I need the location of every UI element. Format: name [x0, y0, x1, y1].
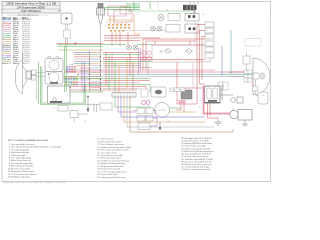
tachometer	[45, 72, 63, 85]
plug lead wire	[100, 28, 102, 50]
red loop wires	[197, 25, 205, 89]
legend rows	[3, 19, 32, 65]
tail feed wires	[228, 72, 253, 76]
warning lamp	[158, 15, 164, 21]
svg-text:Starter motor assembly: Starter motor assembly	[185, 145, 207, 148]
starter cable	[220, 85, 233, 100]
CDI cluster	[177, 88, 197, 104]
knot red wires	[104, 32, 160, 46]
ignition switch connector (black)	[183, 2, 198, 14]
main harness bundle	[64, 58, 250, 94]
svg-text:Emergency flasher switch: Emergency flasher switch	[11, 170, 34, 173]
rear connector block	[218, 82, 228, 90]
switch box D with contacts	[185, 24, 199, 33]
svg-text:L & R handlebar pilot lamps: L & R handlebar pilot lamps	[185, 166, 210, 169]
svg-text:Lighting switch/main switch (r: Lighting switch/main switch (right)	[101, 146, 132, 149]
connector right of ground bus	[100, 103, 112, 110]
svg-text:Tachometer light: Tachometer light	[11, 154, 26, 157]
svg-text:Carl Whitacre: Carl Whitacre	[21, 9, 42, 13]
svg-text:KEY TO WIRING DIAGRAM 1955 XS6: KEY TO WIRING DIAGRAM 1955 XS650	[8, 139, 49, 142]
purple feeders	[139, 48, 141, 75]
horn lead pair	[66, 24, 68, 30]
rear lights assembly box	[152, 45, 210, 63]
connector cluster pink	[142, 51, 151, 61]
svg-text:Turn signal flasher relay (6 V: Turn signal flasher relay (6 V)	[185, 153, 212, 156]
headlight wires	[36, 73, 45, 101]
harness comb connector	[112, 93, 136, 98]
svg-text:Turn signal switch: Turn signal switch	[101, 151, 117, 154]
blue riser	[84, 62, 86, 92]
comb drop blue	[121, 97, 205, 117]
battery heavy lead	[204, 86, 233, 114]
ground symbol battery	[214, 120, 222, 125]
svg-text:Neutral switch and oil: Neutral switch and oil	[101, 168, 121, 171]
comb drop brown	[130, 97, 233, 132]
svg-text:Battery (6N6-3B) and breather: Battery (6N6-3B) and breather	[185, 142, 213, 145]
subtitle bar	[8, 13, 48, 16]
relay wiring (purple)	[134, 111, 157, 127]
breaker box	[0, 0, 1, 1]
rear bulb L	[164, 49, 172, 54]
kick lead with arrow	[87, 96, 89, 112]
svg-text:Rectifier (silicon, 6 V 10 A): Rectifier (silicon, 6 V 10 A)	[185, 139, 209, 142]
indicator lamp L	[127, 45, 132, 50]
left switch cluster	[65, 64, 79, 88]
ignition unit box	[48, 86, 71, 104]
harness connector rail left	[89, 50, 91, 92]
purple dash stub	[157, 2, 159, 8]
softening overlay	[32, 14, 271, 137]
bulb socket connectors	[32, 70, 37, 75]
blue run	[221, 46, 223, 76]
svg-text:Meter & pilot lamp set: Meter & pilot lamp set	[11, 159, 31, 162]
tail light bulb	[253, 73, 265, 79]
flasher relay small	[64, 30, 71, 38]
battery down leads	[208, 103, 219, 120]
red drops to CDI	[177, 62, 193, 92]
ground bus (green loop)	[41, 66, 86, 104]
indicator lamp R	[133, 45, 138, 50]
parts list column 2	[97, 138, 131, 179]
relay box 3	[138, 123, 150, 130]
svg-text:Licence plate light: Licence plate light	[101, 173, 118, 176]
svg-text:Horn switch and dimmer switch: Horn switch and dimmer switch	[101, 149, 129, 152]
svg-text:Tail/brake light bulb (6V 17/5: Tail/brake light bulb (6V 17/5W)	[185, 158, 214, 161]
parts list column 3	[181, 137, 214, 171]
horn right	[243, 52, 250, 72]
red cross wire	[56, 43, 103, 44]
svg-text:Front brake light switch: Front brake light switch	[101, 140, 122, 143]
svg-text:Turn signal pilot light: Turn signal pilot light	[11, 148, 30, 151]
long green link	[128, 10, 196, 12]
red risers to rear light box	[143, 39, 205, 70]
svg-text:Horn and wire assembly: Horn and wire assembly	[101, 154, 124, 157]
svg-text:Frame ground (earth) strap: Frame ground (earth) strap	[101, 176, 126, 179]
dashed link	[194, 10, 196, 45]
svg-text:Main fuse (20 A) and spare fus: Main fuse (20 A) and spare fuse	[185, 150, 215, 153]
rectifier	[253, 86, 269, 104]
ground symbol starter	[242, 120, 248, 126]
flasher leads	[66, 38, 68, 46]
flasher connector circles	[142, 101, 151, 105]
coil pin rows (orange)	[108, 24, 130, 32]
weave horizontals	[103, 53, 140, 55]
speedometer	[45, 56, 63, 71]
weave verticals	[106, 52, 133, 90]
svg-text:Turn signal/running light (lef: Turn signal/running light (left) & handl…	[11, 146, 62, 149]
legend header	[3, 16, 33, 19]
right connector column	[205, 22, 214, 39]
green stub	[149, 2, 151, 9]
svg-text:Rear brake light switch: Rear brake light switch	[101, 157, 122, 160]
knot green wires	[58, 45, 152, 47]
pilot lamps pair	[151, 26, 163, 31]
main fuse holder	[231, 97, 243, 103]
svg-text:Rear turn signal lights (L & R: Rear turn signal lights (L & R)	[185, 160, 212, 163]
svg-text:Neutral switch (on crankcase): Neutral switch (on crankcase)	[185, 163, 212, 166]
top green stubs	[126, 2, 140, 10]
svg-text:L & R turn direction indicator: L & R turn direction indicator	[11, 173, 37, 176]
CDI feed	[176, 104, 184, 112]
svg-text:Speedo & meter light: Speedo & meter light	[11, 167, 31, 170]
svg-text:Frame / body ground (earth): Frame / body ground (earth)	[185, 168, 211, 171]
comb drop green	[115, 97, 151, 107]
connector below ignition unit	[58, 106, 68, 112]
svg-text:Handlebar stop lamp: Handlebar stop lamp	[11, 176, 31, 179]
switch box C	[166, 25, 180, 33]
svg-text:AC generator (alternator): AC generator (alternator)	[101, 165, 124, 168]
headlight bulb	[26, 71, 31, 79]
ignition coil block	[108, 6, 132, 22]
main switch	[151, 87, 166, 97]
relay box 2	[137, 116, 145, 122]
column connector boxes	[205, 41, 214, 58]
svg-text:Turn signal light (left front): Turn signal light (left front)	[11, 143, 35, 146]
pink top edge wire	[152, 45, 210, 47]
faint box right	[245, 39, 261, 47]
harness tail wires	[70, 90, 137, 92]
safety relay box	[170, 88, 185, 92]
coil wires (orange)	[108, 14, 140, 44]
comb drop purple	[118, 97, 136, 112]
svg-text:High beam pilot light: High beam pilot light	[11, 151, 30, 154]
svg-text:Headlight bulb (12 V 35/35 W): Headlight bulb (12 V 35/35 W)	[185, 137, 213, 140]
svg-text:Rush / Engine stop switch: Rush / Engine stop switch	[101, 143, 125, 146]
battery	[205, 86, 221, 103]
switch box A	[168, 14, 180, 21]
tail connector grid	[244, 70, 252, 82]
tail light shell	[253, 58, 270, 95]
rear bulb R	[185, 49, 193, 54]
border frame	[2, 2, 271, 182]
rail junction dots	[89, 56, 101, 89]
teal run	[230, 30, 232, 74]
spark plug taper	[98, 15, 103, 28]
drop from cluster	[147, 61, 149, 75]
neutral switch box	[70, 111, 88, 123]
connector ladder rungs	[90, 53, 100, 90]
component number labels	[53, 10, 265, 123]
switch stub wires	[80, 68, 89, 80]
spark plug cap	[98, 4, 103, 9]
title block	[2, 2, 60, 14]
relay box 1	[137, 108, 145, 114]
coil green feeds	[104, 8, 140, 10]
alternator leads	[170, 108, 197, 112]
headlight reflector	[15, 53, 27, 94]
wire pair to connector	[85, 104, 100, 112]
harness connector rail right	[100, 50, 102, 92]
battery terminal bar	[205, 102, 221, 104]
switch box B with contacts	[185, 14, 199, 22]
svg-text:Turn signal light (right): Turn signal light (right)	[11, 157, 32, 160]
olive wire	[58, 49, 103, 51]
svg-text:Black 2: Black 2	[3, 63, 13, 65]
svg-text:Main switch/steering lock: Main switch/steering lock	[11, 165, 35, 168]
parts list column 1	[8, 143, 62, 179]
svg-text:Safety relay (starter lockout): Safety relay (starter lockout)	[185, 147, 211, 150]
comb drop gray	[127, 97, 214, 127]
plus marks	[159, 50, 163, 54]
purple riser	[81, 62, 83, 92]
svg-text:Diagram and key courtesy of Ya: Diagram and key courtesy of Yamaha archi…	[3, 181, 66, 184]
alternator	[155, 103, 170, 118]
green drop wires	[39, 46, 66, 104]
svg-text:Condenser and contact breaker: Condenser and contact breaker	[101, 160, 130, 163]
svg-text:Starter switch: Starter switch	[101, 138, 113, 141]
svg-text:Ignition coil and spark plug: Ignition coil and spark plug	[101, 162, 125, 165]
rectifier leads	[253, 80, 256, 86]
horn	[58, 9, 72, 25]
comb drop orange	[124, 97, 205, 122]
condenser box	[141, 89, 148, 97]
starter motor	[230, 110, 252, 121]
green drop mid	[114, 62, 116, 96]
gray line mid	[120, 30, 168, 32]
svg-text:Flasher self-canceling unit: Flasher self-canceling unit	[185, 155, 209, 158]
ignition coil body	[97, 8, 105, 15]
svg-text:L & R turn signal lights (rear: L & R turn signal lights (rear)	[101, 170, 127, 173]
kick arrow mid	[159, 122, 161, 130]
svg-text:Black 2: Black 2	[22, 63, 31, 65]
orange drops	[118, 66, 120, 96]
switch band wires	[74, 53, 90, 66]
svg-text:Turn signal/running light: Turn signal/running light	[11, 162, 33, 165]
